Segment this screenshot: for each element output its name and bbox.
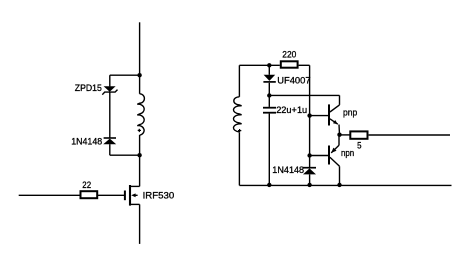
resistor R1 22 [81,191,98,198]
inductor L1 (left primary winding) [137,94,144,135]
resistor R2 220 [281,61,298,67]
wire clamp branch bottom [110,154,140,156]
wire clamp branch top [110,74,140,76]
junction node emitter output [337,133,341,137]
junction node bottom cap [267,183,271,187]
svg-text:22u+1u: 22u+1u [276,105,307,116]
wire collector feed horizontal [269,94,339,96]
wire gate input [19,194,80,196]
capacitor C1 22u+1u [263,96,276,186]
junction node top left of R2 [267,63,271,67]
svg-text:UF4007: UF4007 [277,75,310,86]
svg-text:1N4148: 1N4148 [71,136,102,147]
wire clamp branch vertical upper [109,75,111,86]
wire right coil bottom lead [238,133,240,186]
wire resistor to gate [98,194,124,196]
junction node bottom diode [307,183,311,187]
junction node top (drain node) [137,73,141,77]
inductor L2 (right secondary winding) [233,97,241,132]
svg-text:1N4148: 1N4148 [272,165,304,176]
resistor R3 5 [350,131,367,138]
transistor Q3 npn [329,135,340,186]
junction node pnp base [307,113,311,117]
junction node bottom npn collector [337,183,341,187]
wire right rail upper [309,65,311,167]
svg-text:22: 22 [82,180,91,191]
junction node below UF4007 [267,93,271,97]
wire pnp base [310,115,328,117]
wire clamp branch vertical middle [109,92,111,137]
polarity mark + on L2 [238,129,241,132]
transistor Q1 IRF530 MOSFET [125,185,140,206]
wire clamp branch vertical lower [109,144,111,155]
polarity mark + on L1 [138,129,141,132]
wire right rail lower [309,175,311,186]
wire resistor 220 to right rail [299,64,310,66]
zener diode ZPD15 [102,86,117,94]
wire left rail bottom segment [139,204,141,244]
wire right circuit top [239,64,279,66]
transistor Q2 pnp [329,104,340,134]
wire node to R3 [340,134,351,136]
wire output [369,134,450,136]
junction node npn base [307,153,311,157]
wire right circuit bottom [239,184,451,186]
svg-text:IRF530: IRF530 [143,190,175,201]
svg-text:npn: npn [341,148,354,159]
diode D1 1N4148 (left) [103,138,116,144]
svg-text:5: 5 [357,140,361,151]
junction node bottom of clamp [137,153,141,157]
diode D2 UF4007 [263,65,275,95]
svg-text:220: 220 [282,49,296,60]
wire collector vertical [339,95,341,105]
wire npn base [310,155,328,157]
wire right coil top lead [238,65,240,97]
wire left rail top segment [139,22,141,94]
svg-text:ZPD15: ZPD15 [75,83,102,94]
svg-text:pnp: pnp [343,108,357,119]
diode D3 1N4148 (right) [303,168,316,175]
wire left rail mid segment [139,135,141,186]
